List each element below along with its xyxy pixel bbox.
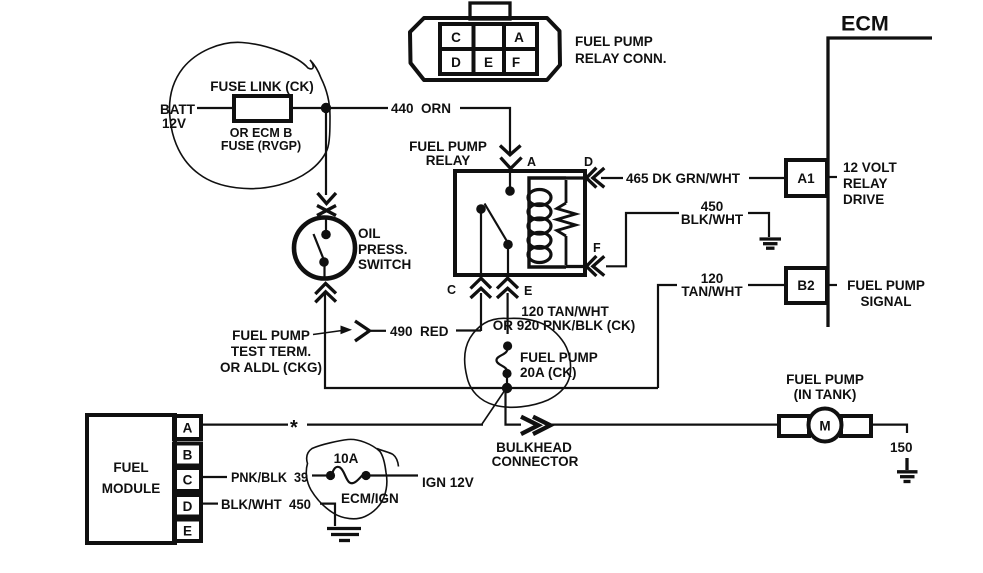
svg-text:MODULE: MODULE: [102, 481, 161, 496]
fuel module terminal C: [174, 468, 201, 491]
svg-text:BLK/WHT 450: BLK/WHT 450: [221, 497, 311, 512]
fuel pump motor M1 right terminal: [841, 416, 871, 436]
terminal A1 box: [786, 160, 827, 196]
svg-text:BATT: BATT: [160, 102, 196, 117]
fuel module terminal B: [174, 444, 201, 466]
svg-text:OR ALDL (CKG): OR ALDL (CKG): [220, 360, 322, 375]
fuel module terminal D: [174, 495, 201, 517]
connector symbol at relay pin C: [471, 278, 492, 298]
relay coil L1: [528, 190, 551, 263]
svg-text:OR 920 PNK/BLK (CK): OR 920 PNK/BLK (CK): [493, 318, 636, 333]
svg-text:BULKHEAD: BULKHEAD: [496, 440, 572, 455]
svg-text:RELAY CONN.: RELAY CONN.: [575, 51, 667, 66]
hand-drawn tail stroke on 10A loop: [377, 449, 399, 467]
relay pin C lead: [480, 211, 482, 273]
wire 450 BLK/WHT to ground: [748, 213, 769, 237]
wire from module pin D: [202, 503, 218, 505]
svg-text:M: M: [819, 419, 830, 434]
svg-text:FUEL PUMP: FUEL PUMP: [786, 372, 864, 387]
svg-text:20A (CK): 20A (CK): [520, 365, 577, 380]
fuse F3 left terminal dot: [326, 471, 335, 480]
svg-text:RELAY: RELAY: [843, 176, 888, 191]
svg-text:150: 150: [890, 440, 913, 455]
wire 120 TAN/WHT into B2: [748, 284, 786, 286]
connector J1 cavity grid: [440, 24, 537, 74]
node junction dot on 440 ORN: [321, 103, 331, 113]
svg-text:CONNECTOR: CONNECTOR: [492, 454, 579, 469]
wire relay pin E down to 20A fuse: [507, 293, 509, 334]
fuel module terminal E: [174, 520, 201, 542]
wire 465 DK GRN/WHT from pin D: [601, 177, 623, 179]
oil pressure switch top contact stub: [325, 218, 327, 231]
svg-text:D: D: [451, 55, 461, 70]
svg-text:OIL: OIL: [358, 226, 381, 241]
oil pressure switch arm: [314, 234, 324, 259]
ground symbol (ECM/IGN): [327, 529, 361, 541]
relay switch fixed contact: [476, 204, 486, 214]
svg-text:120 TAN/WHT: 120 TAN/WHT: [521, 304, 609, 319]
wire BLK/WHT 450 to ground: [320, 504, 335, 526]
relay switch arm: [485, 204, 509, 244]
svg-text:F: F: [512, 55, 520, 70]
wire branch down to oil pressure switch: [325, 110, 327, 195]
relay coil inner box: [529, 178, 566, 267]
svg-text:ECM: ECM: [841, 12, 889, 36]
svg-text:OR ECM B: OR ECM B: [230, 126, 293, 140]
relay inner box extensions to pins D and F: [566, 176, 584, 179]
svg-text:B: B: [183, 448, 193, 463]
svg-text:TAN/WHT: TAN/WHT: [681, 284, 743, 299]
wire 440 ORN continues to corner and down to relay pin A: [460, 108, 510, 153]
pin tick B2: [829, 284, 837, 286]
oil pressure switch contact dot upper: [321, 230, 331, 240]
svg-text:PRESS.: PRESS.: [358, 242, 408, 257]
svg-text:10A: 10A: [334, 451, 359, 466]
ECM module outline: [828, 38, 932, 327]
wire bulkhead to fuel pump motor: [551, 424, 779, 426]
svg-text:C: C: [447, 283, 456, 297]
svg-text:12 VOLT: 12 VOLT: [843, 160, 898, 175]
svg-text:IGN 12V: IGN 12V: [422, 475, 474, 490]
wire fuse to IGN 12V: [369, 474, 418, 476]
ground symbol (150): [897, 458, 918, 482]
wire 465 DK GRN/WHT into A1: [749, 177, 786, 179]
svg-text:FUSE LINK (CK): FUSE LINK (CK): [210, 79, 314, 94]
svg-text:D: D: [584, 155, 593, 169]
svg-text:D: D: [183, 499, 193, 514]
fuel module terminal A: [174, 416, 201, 439]
wire 440 ORN from fuse link to relay pin A corner: [291, 107, 388, 109]
svg-text:465 DK GRN/WHT: 465 DK GRN/WHT: [626, 171, 741, 186]
hand-drawn loop around fuse link: [170, 42, 330, 188]
svg-text:FUSE (RVGP): FUSE (RVGP): [221, 139, 301, 153]
svg-text:FUEL PUMP: FUEL PUMP: [847, 278, 925, 293]
test terminal symbol: [355, 321, 370, 341]
connector symbol at relay pin F: [586, 256, 604, 276]
wire from module pin C: [202, 476, 227, 478]
wire relay pin C down to 490 RED junction: [480, 293, 482, 331]
svg-text:BLK/WHT: BLK/WHT: [681, 212, 744, 227]
relay K1 outer box: [455, 171, 585, 275]
svg-text:A1: A1: [797, 171, 815, 186]
svg-text:SIGNAL: SIGNAL: [860, 294, 911, 309]
oil pressure switch bottom stub: [323, 264, 325, 279]
svg-text:490 RED: 490 RED: [390, 324, 449, 339]
wire fuse to bus junction: [506, 375, 508, 388]
oil pressure switch S1 body: [294, 218, 355, 279]
wire 490 RED: [371, 330, 386, 332]
svg-text:(IN TANK): (IN TANK): [794, 387, 857, 402]
bulkhead connector symbol: [521, 417, 550, 434]
fuse F3 right terminal dot: [361, 471, 370, 480]
svg-text:A: A: [514, 30, 524, 45]
fuse F2 bottom terminal dot: [502, 369, 511, 378]
oil pressure switch contact dot lower: [319, 257, 329, 267]
fuel pump motor M1 left terminal: [779, 416, 809, 436]
wire 120 TAN/WHT riser from bus: [658, 285, 677, 388]
svg-text:DRIVE: DRIVE: [843, 192, 884, 207]
svg-text:FUEL PUMP: FUEL PUMP: [575, 34, 653, 49]
fuel module box: [87, 415, 175, 543]
relay switch moving contact: [503, 240, 513, 250]
svg-text:A: A: [183, 421, 193, 436]
svg-text:E: E: [183, 524, 192, 539]
svg-text:RELAY: RELAY: [426, 153, 471, 168]
wire 490 RED to relay pin C lead: [456, 329, 481, 331]
hand-drawn loop around 10A fuse: [306, 439, 387, 518]
fuel pump motor M1 body: [809, 409, 842, 442]
node junction dot on bus: [502, 383, 512, 393]
fuse F2 top terminal dot: [503, 341, 512, 350]
wire BATT to fuse link: [197, 107, 234, 109]
svg-text:SWITCH: SWITCH: [358, 257, 411, 272]
svg-text:440 ORN: 440 ORN: [391, 101, 451, 116]
svg-text:FUEL PUMP: FUEL PUMP: [520, 350, 598, 365]
fuse F3 squiggle element: [332, 467, 363, 483]
connector symbol above oil pressure switch: [317, 193, 336, 216]
wire pin A bus to diagonal link: [307, 424, 483, 426]
terminal B2 box: [786, 268, 827, 303]
svg-text:C: C: [183, 473, 193, 488]
connector symbol at relay pin A: [500, 146, 522, 169]
wire 450 BLK/WHT from pin F up: [606, 213, 679, 266]
svg-text:12V: 12V: [162, 116, 186, 131]
connector symbol below oil pressure switch: [315, 284, 336, 303]
svg-text:F: F: [593, 241, 601, 255]
svg-text:FUEL PUMP: FUEL PUMP: [409, 139, 487, 154]
relay pin E lead: [507, 246, 509, 273]
svg-text:FUEL: FUEL: [113, 460, 148, 475]
connector J1 fuel pump relay connector tab: [470, 3, 510, 19]
svg-text:ECM/IGN: ECM/IGN: [341, 491, 399, 506]
connector symbol at relay pin E: [497, 278, 518, 298]
svg-text:E: E: [524, 284, 532, 298]
wire motor to ground corner: [871, 425, 907, 433]
svg-text:E: E: [484, 55, 493, 70]
fuse F2 squiggle element: [496, 348, 507, 371]
relay pin A lead and node: [509, 173, 511, 189]
svg-text:FUEL PUMP: FUEL PUMP: [232, 328, 310, 343]
svg-text:*: *: [290, 417, 298, 439]
svg-text:B2: B2: [797, 278, 814, 293]
fuse link F1 body: [234, 96, 291, 121]
hand-drawn diagonal link to lower bus: [482, 390, 505, 424]
ground symbol (450 BLK/WHT): [760, 239, 782, 248]
relay resistor R1: [557, 180, 576, 265]
wire to 10A fuse: [312, 474, 327, 476]
svg-text:TEST TERM.: TEST TERM.: [231, 344, 311, 359]
connector symbol at relay pin D: [586, 168, 604, 188]
hand-drawn loop around 20A fuse: [465, 318, 571, 407]
svg-text:A: A: [527, 155, 536, 169]
svg-text:PNK/BLK 39: PNK/BLK 39: [231, 470, 308, 485]
wire oil pressure switch down to bus: [325, 293, 658, 388]
connector J1 fuel pump relay connector body: [410, 18, 560, 80]
wire drop from junction to lower bus: [506, 390, 522, 425]
wire from module pin A: [202, 424, 288, 426]
pin tick A1: [829, 176, 837, 178]
svg-text:C: C: [451, 30, 461, 45]
leader arrow to test terminal: [313, 331, 342, 335]
